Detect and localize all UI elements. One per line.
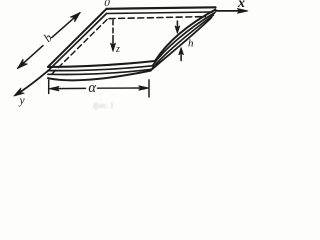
svg-text:x: x <box>237 0 245 11</box>
svg-text:y: y <box>19 95 26 107</box>
svg-text:0: 0 <box>104 0 110 9</box>
svg-text:фиг. 1: фиг. 1 <box>93 100 114 110</box>
svg-text:α: α <box>88 80 96 96</box>
svg-text:z: z <box>115 44 120 55</box>
svg-text:h: h <box>188 38 194 50</box>
